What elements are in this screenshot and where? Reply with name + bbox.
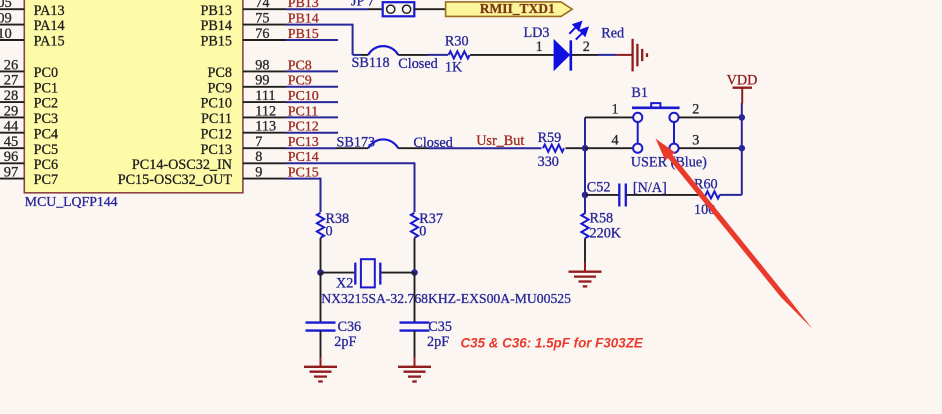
pin 9 (PC15-OSC32_OUT) stub [243,178,286,180]
solder bridge SB173 (closed) arc [368,139,398,148]
svg-text:PB13: PB13 [200,3,232,19]
pin 44 (PC4) wire [0,132,24,134]
svg-text:111: 111 [255,88,275,104]
svg-text:PC7: PC7 [34,172,58,188]
svg-text:R58: R58 [590,210,614,226]
pin 8 (PC14-OSC32_IN) stub [243,162,286,164]
JP7 pin 1 lead [368,8,383,10]
wire net stub [286,132,338,134]
svg-text:75: 75 [255,11,269,27]
svg-text:45: 45 [4,134,19,150]
pushbutton B1 [632,103,680,153]
solder bridge SB118 (closed) arc [368,46,398,55]
wire C36 to ground [320,331,322,357]
annotation red arrow pointing at B1 [656,139,813,330]
wire B1 pin 3 to rail [679,147,742,149]
wire B1 pin 2 to VDD rail [679,116,742,118]
pin 29 (PC3) wire [0,116,24,118]
resistor R30 [449,51,470,58]
svg-text:PC8: PC8 [208,65,232,81]
resistor R58 [581,213,588,238]
svg-text:PA13: PA13 [34,3,65,19]
svg-text:29: 29 [4,103,19,119]
svg-text:PC3: PC3 [34,111,58,127]
wire C35 to ground [414,331,416,357]
svg-text:7: 7 [255,134,262,150]
pin 109 (PA14) wire [0,24,24,26]
wire R37 to crystal row [414,238,416,273]
pin 112 (PC11) stub [243,116,286,118]
right rail wire [741,103,743,195]
svg-text:PC10: PC10 [200,96,232,112]
resistor R60 [699,191,720,198]
pin 97 (PC7) wire [0,178,24,180]
svg-text:4: 4 [612,132,619,148]
svg-text:JP 7: JP 7 [351,0,375,9]
svg-text:PB15: PB15 [200,34,232,50]
svg-text:PC0: PC0 [34,65,58,81]
wire LD3 cathode [572,54,598,56]
svg-text:0: 0 [326,223,333,239]
svg-text:110: 110 [0,26,12,42]
svg-text:28: 28 [4,88,19,104]
svg-text:PC13: PC13 [200,142,232,158]
svg-text:MCU_LQFP144: MCU_LQFP144 [25,194,118,209]
junction at rail pin3 [739,145,746,152]
pin 98 (PC8) stub [243,70,286,72]
svg-text:PC2: PC2 [34,96,58,112]
svg-text:109: 109 [0,11,12,27]
pin 99 (PC9) stub [243,86,286,88]
wire R38 to crystal row [320,238,322,273]
svg-text:2pF: 2pF [427,334,449,350]
wire PC13 to SB173 [286,147,336,149]
svg-text:PC9: PC9 [208,80,232,96]
ground (rotated) after LD3 [617,54,632,56]
ground below C35 [398,366,431,368]
node: left button rail [584,117,586,194]
svg-text:2: 2 [583,39,590,55]
svg-text:PC15-OSC32_OUT: PC15-OSC32_OUT [118,172,233,188]
svg-text:330: 330 [538,154,559,170]
junction at rail pin2 [739,114,746,121]
port RMII_TXD1 [446,2,573,17]
jumper JP7 [383,2,415,16]
svg-text:0: 0 [419,223,426,239]
svg-text:[N/A]: [N/A] [633,180,667,196]
svg-text:112: 112 [255,103,276,119]
pin 27 (PC1) wire [0,86,24,88]
svg-text:1K: 1K [445,59,463,75]
resistor R38 [317,213,324,238]
wire to C35 [414,273,416,323]
svg-text:C52: C52 [587,179,611,195]
wire PC15 horizontal [286,178,321,180]
wire to B1 pin 1 [585,116,633,118]
svg-text:Usr_But: Usr_But [476,133,524,149]
svg-text:PC4: PC4 [34,126,58,142]
LD3 light arrows [569,22,587,39]
svg-text:96: 96 [4,149,19,165]
wire PC14 vertical [414,162,416,212]
pin 45 (PC5) wire [0,147,24,149]
svg-text:PA15: PA15 [34,34,65,50]
svg-text:PC6: PC6 [34,157,58,173]
svg-text:74: 74 [255,0,269,11]
svg-text:76: 76 [255,26,269,42]
wire R60 to rail [720,194,742,196]
resistor R59 [543,145,564,152]
pin 28 (PC2) wire [0,101,24,103]
capacitor C35 [400,321,430,323]
wire net stub [286,70,338,72]
wire PB14 vertical drop [352,24,354,55]
wire C52 to R60 [626,194,699,196]
pin 74 (PB13) stub [243,8,286,10]
wire R58 to ground [584,238,586,262]
svg-text:VDD: VDD [727,72,758,88]
wire node to C52 [585,194,619,196]
wire Usr_But to R59 [398,147,428,149]
svg-text:2pF: 2pF [334,334,356,350]
wire X2 right plate to node [381,272,414,274]
pin 26 (PC0) wire [0,70,24,72]
wire to ground [598,54,617,56]
ground below R58 [569,271,602,273]
wire PB13 to JP7 [286,8,368,10]
crystal X2 [354,263,356,285]
wire net stub [286,101,338,103]
junction crystal left [317,269,324,276]
svg-text:8: 8 [255,149,262,165]
LED LD3 [554,39,571,71]
wire to X2 left plate [321,272,355,274]
svg-text:C35: C35 [428,319,452,335]
svg-text:44: 44 [4,119,19,135]
pin 96 (PC6) wire [0,162,24,164]
svg-text:3: 3 [692,133,699,149]
wire node to R58 [584,195,586,214]
svg-text:26: 26 [4,57,19,73]
svg-text:R59: R59 [538,130,562,146]
wire to C36 [320,273,322,323]
svg-text:PC14-OSC32_IN: PC14-OSC32_IN [132,157,232,173]
svg-text:9: 9 [255,165,262,181]
svg-text:1: 1 [536,39,543,55]
svg-text:PC11: PC11 [201,111,232,127]
svg-text:NX3215SA-32.768KHZ-EXS00A-MU00: NX3215SA-32.768KHZ-EXS00A-MU00525 [321,291,571,306]
svg-text:PA14: PA14 [34,18,65,34]
svg-text:99: 99 [255,73,269,89]
pin 110 (PA15) wire [0,39,24,41]
wire net stub [286,39,338,41]
svg-text:PC12: PC12 [200,126,232,142]
wire net stub [286,116,338,118]
svg-text:C35 & C36: 1.5pF for F303ZE: C35 & C36: 1.5pF for F303ZE [461,336,644,351]
pin 7 (PC13) stub [243,147,286,149]
ground below C36 [304,366,337,368]
svg-text:97: 97 [4,165,19,181]
pin 105 (PA13) wire [0,8,24,10]
svg-text:R30: R30 [445,33,469,49]
svg-text:B1: B1 [631,85,648,101]
wire SB118 to R30 [398,54,428,56]
wire to SB118 [353,54,361,56]
svg-text:2: 2 [692,102,699,118]
svg-text:98: 98 [255,57,269,73]
svg-text:X2: X2 [336,276,353,292]
wire PC14 horizontal [286,162,415,164]
svg-text:105: 105 [0,0,12,11]
pin 75 (PB14) stub [243,24,286,26]
wire to B1 pin 4 [585,147,633,149]
wire R59 to node [566,147,586,149]
svg-text:PB14: PB14 [200,18,232,34]
svg-text:27: 27 [4,73,19,89]
wire PC15 vertical [320,178,322,212]
svg-text:SB118: SB118 [352,55,390,71]
svg-text:Closed: Closed [398,56,437,72]
svg-text:220K: 220K [590,225,622,241]
wire net stub [286,86,338,88]
MCU U1 block body [24,0,243,193]
junction crystal right [411,269,418,276]
capacitor C36 [306,321,336,323]
pin 113 (PC12) stub [243,132,286,134]
resistor R37 [411,213,418,238]
svg-text:113: 113 [255,119,276,135]
pin 111 (PC10) stub [243,101,286,103]
svg-text:RMII_TXD1: RMII_TXD1 [480,1,555,16]
svg-text:PC1: PC1 [34,80,58,96]
svg-text:1: 1 [612,101,619,117]
JP7 pin 2 lead [414,8,445,10]
capacitor C52 [618,184,620,207]
svg-text:PC5: PC5 [34,142,58,158]
junction C52 row [582,192,589,199]
wire R30 to LD3 [470,54,553,56]
svg-text:C36: C36 [338,319,362,335]
wire PB14 horizontal [286,24,353,26]
pin 76 (PB15) stub [243,39,286,41]
svg-text:Red: Red [601,25,624,41]
